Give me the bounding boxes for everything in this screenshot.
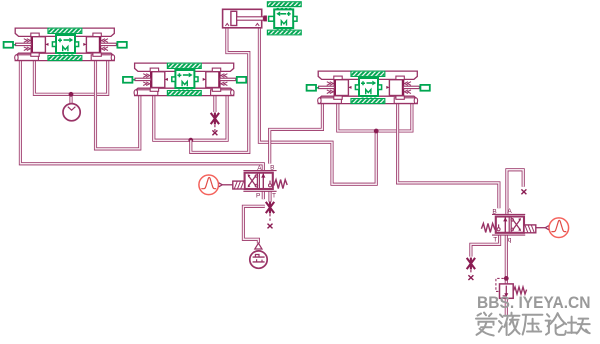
plug X under V1 bbox=[266, 202, 274, 214]
plug X under V2 bbox=[467, 258, 475, 270]
motor-brake unit A1 bbox=[4, 28, 127, 61]
wire valve V2 port P to relief valve bbox=[505, 235, 508, 284]
V1 return spring bbox=[274, 180, 288, 189]
wire valve V1 port P stub bbox=[262, 191, 265, 199]
wire A1 rail stub to gauge bbox=[69, 94, 72, 103]
wire A3 brake rail (leg2-leg4) bbox=[338, 104, 412, 132]
V1 port rail top bbox=[243, 170, 276, 172]
node A2 rail junction bbox=[188, 138, 193, 143]
V1 solenoid bbox=[233, 181, 245, 189]
wire cylinder right port to A3 rail bbox=[259, 28, 376, 184]
svg-text:A: A bbox=[507, 208, 512, 215]
node A3 rail junction bbox=[374, 129, 379, 134]
wire A2 leg3 plugged stub bbox=[213, 96, 216, 113]
wire valve V2 port A plugged bbox=[507, 170, 523, 214]
watermark line 2 (hand-drawn CJK) bbox=[476, 313, 590, 336]
wire A1 leg3 to A2 leg1 bbox=[96, 61, 140, 149]
wire A3 leg1 to valve V1 port B bbox=[270, 104, 323, 164]
svg-text:BBS. IYEYA.CN: BBS. IYEYA.CN bbox=[477, 294, 591, 312]
svg-text:T: T bbox=[493, 236, 497, 243]
directional valve V2 (mirrored) bbox=[481, 214, 535, 235]
wire valve V2 port T to plug bbox=[471, 235, 500, 256]
node relief junction bbox=[504, 276, 509, 281]
svg-text:T: T bbox=[272, 192, 276, 199]
through arrow bbox=[262, 174, 264, 189]
svg-text:q: q bbox=[508, 237, 512, 244]
svg-text:A: A bbox=[257, 165, 262, 172]
crossed arrows bbox=[248, 175, 256, 186]
signal generator S1 bbox=[199, 175, 233, 195]
wire A1 brake rail (leg2-leg4) bbox=[34, 61, 107, 95]
wire pump to throttle bbox=[243, 206, 264, 243]
V1 valve body bbox=[245, 173, 273, 189]
svg-text:B: B bbox=[270, 165, 274, 172]
wire relief valve outlet bbox=[505, 298, 508, 315]
node A1 rail junction bbox=[69, 92, 74, 97]
svg-text:P: P bbox=[256, 192, 260, 199]
signal generator S2 bbox=[536, 218, 569, 238]
load motor unit M0 (top) bbox=[267, 2, 301, 35]
svg-text:B: B bbox=[492, 208, 496, 215]
valve V2 labels bbox=[492, 208, 512, 243]
hydraulic cylinder C1 bbox=[223, 9, 267, 28]
V1 port rail bottom bbox=[243, 190, 276, 192]
pressure relief valve R1 bbox=[496, 278, 527, 298]
gauge bulb under A1 bbox=[63, 104, 80, 121]
motor-brake unit A2 bbox=[123, 63, 246, 96]
wire A2 brake rail (leg2-leg4) bbox=[154, 96, 227, 141]
directional valve V1 bbox=[233, 165, 287, 200]
pump / pressure source P1 bbox=[250, 243, 267, 268]
wire valve V1 port T to plug bbox=[268, 191, 271, 202]
motor-brake unit A3 bbox=[307, 71, 430, 104]
wire A1 leg1 to valve V1 port A bbox=[20, 61, 263, 171]
wire A2 rail to cylinder left port bbox=[191, 28, 249, 153]
wire A3 leg3 to valve V2 port B bbox=[398, 104, 499, 209]
plug X A2 bbox=[211, 113, 219, 125]
